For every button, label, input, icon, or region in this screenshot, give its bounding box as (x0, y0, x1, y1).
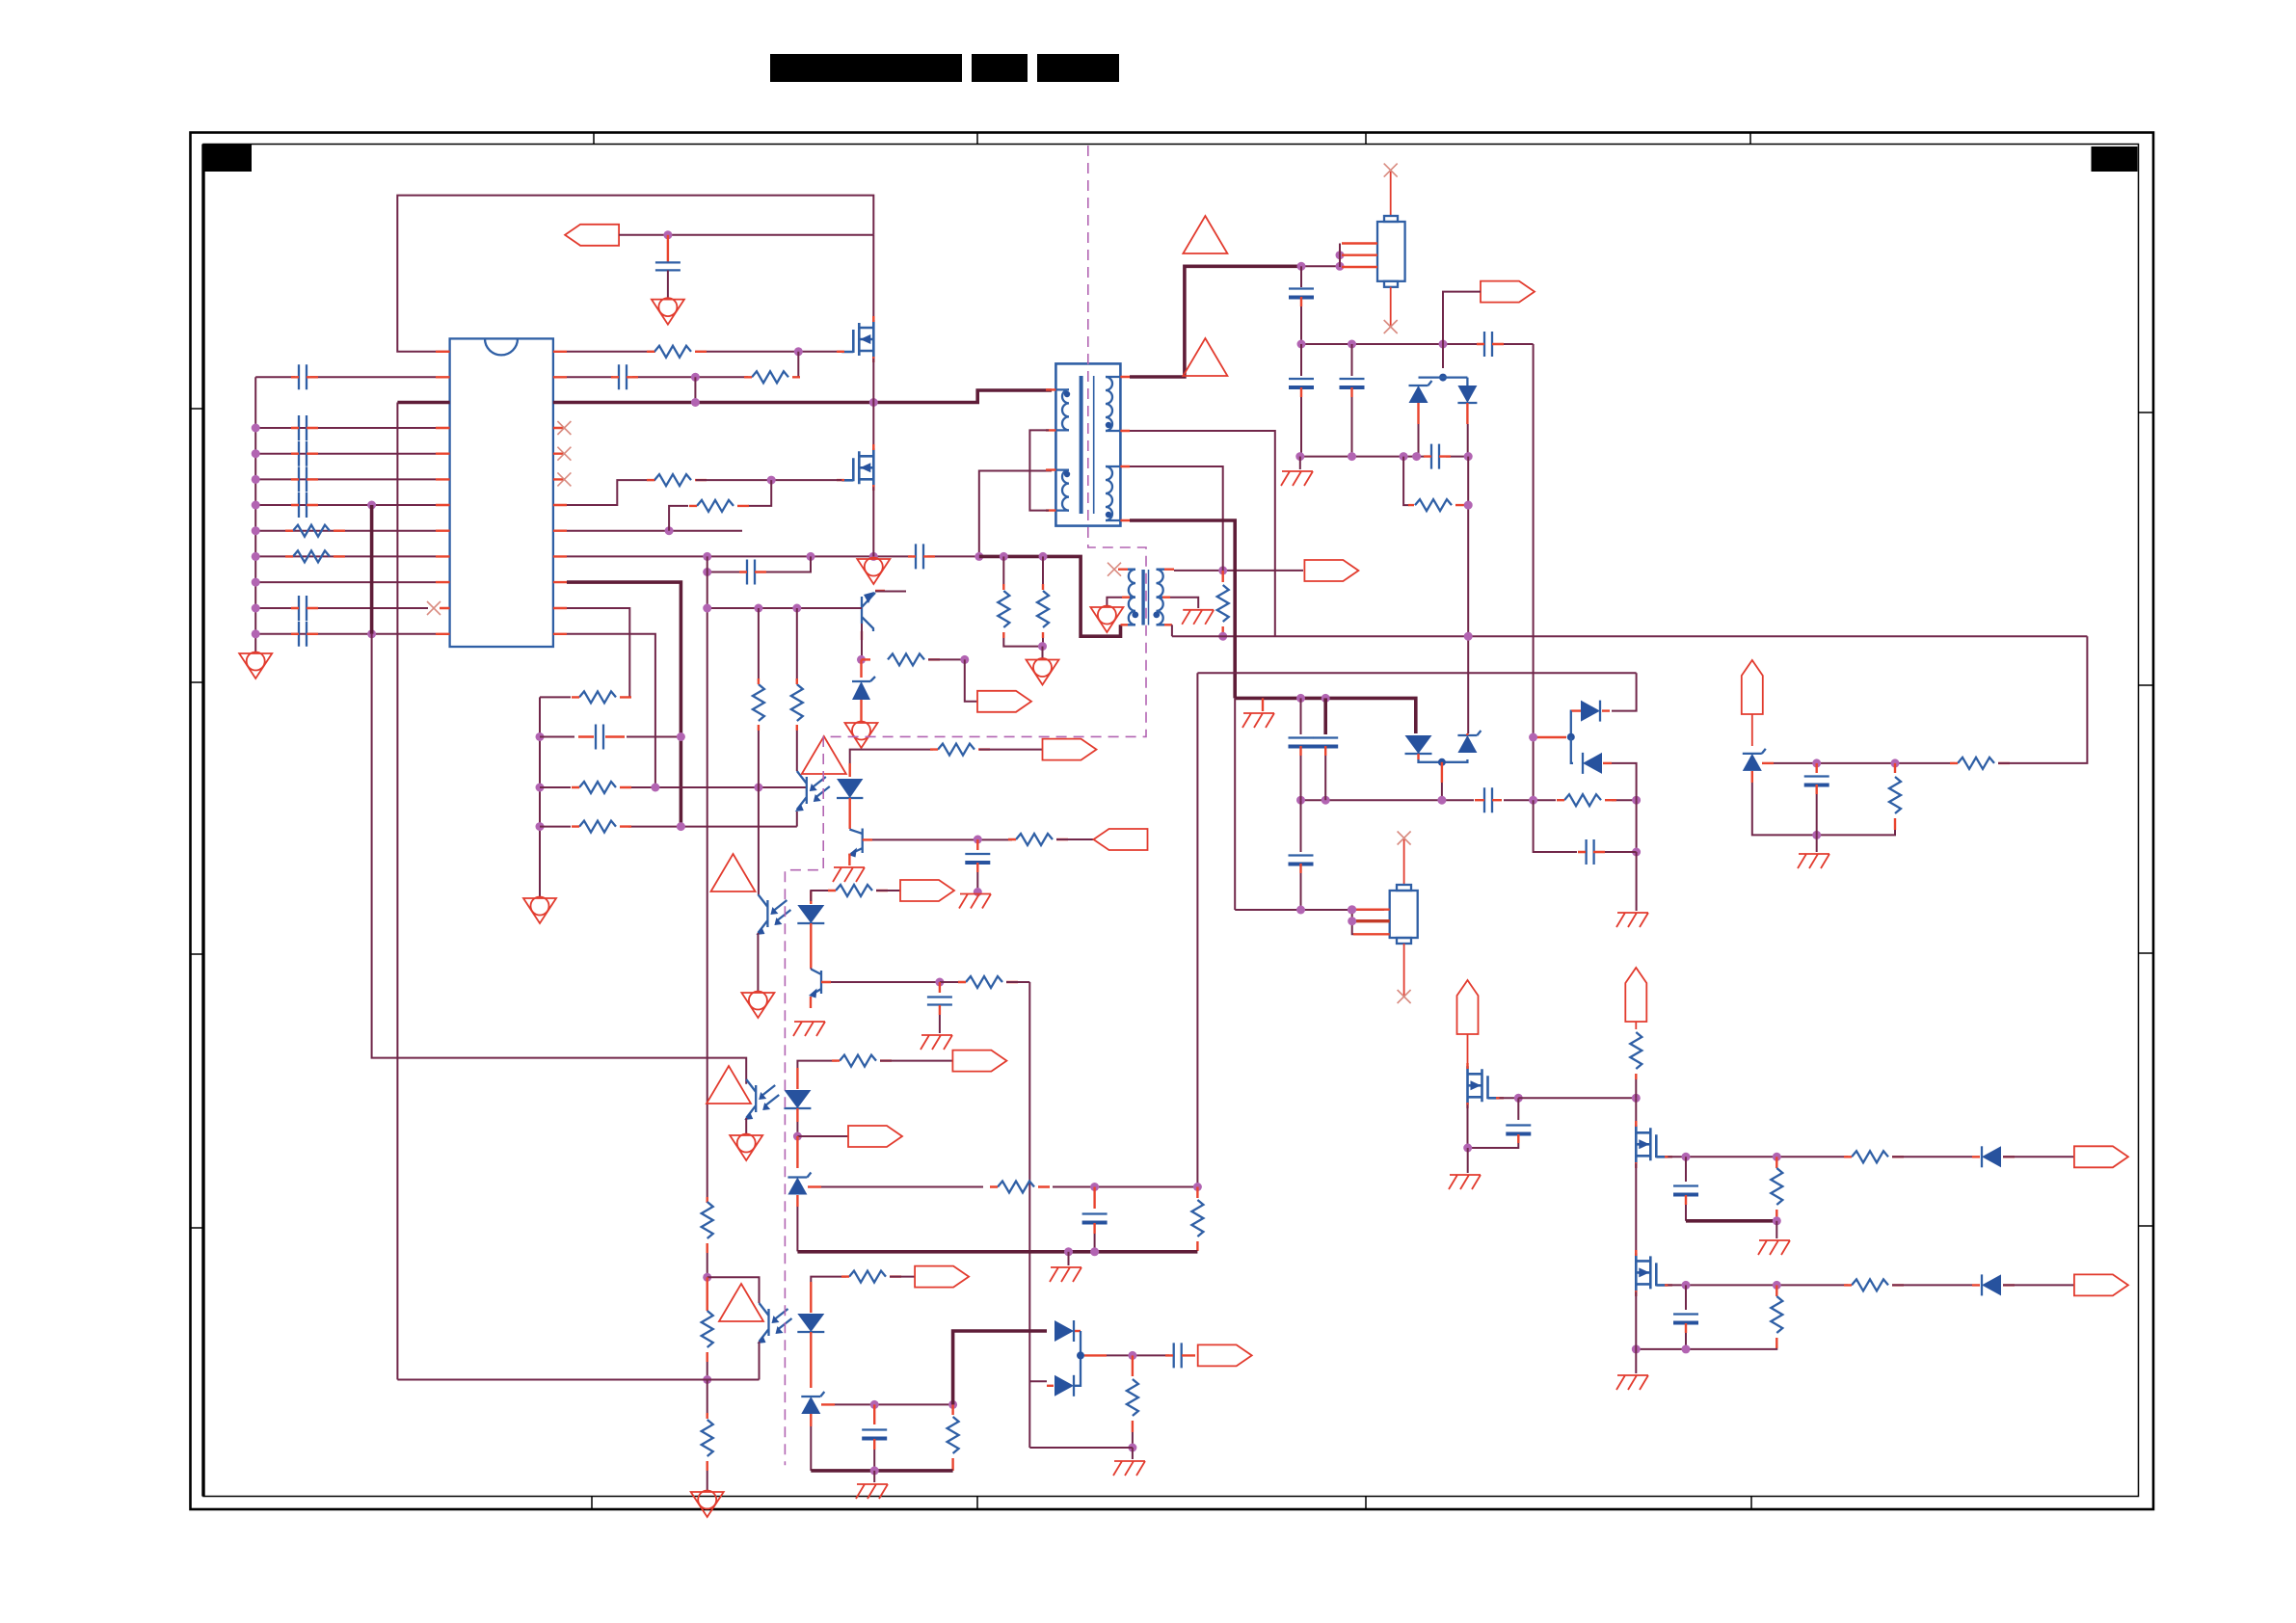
resistor R3 (Q1 gate) (647, 346, 707, 358)
MOSFET Q8 (1636, 1250, 1672, 1296)
regulator U3 (3-terminal) (1348, 832, 1418, 1004)
capacitor C14 (series y357) (1477, 332, 1504, 357)
resistor R29 (948, 1404, 959, 1471)
capacitor C1 (decoupling on arrow net) (655, 235, 681, 300)
wire T1 secondary pin4 thick (1130, 520, 1235, 698)
wire y357 rail (1301, 343, 1534, 345)
wire pin10 row (255, 581, 436, 583)
node R16 bottom on y658 (1218, 632, 1227, 641)
wire Q7 row y1200 (1668, 1156, 1848, 1157)
resistor R36 (x787 chain) (753, 608, 764, 787)
wire y1400 row (1636, 1347, 1776, 1350)
node x733 y1325 (703, 1273, 711, 1282)
node y792 x1966 (1891, 758, 1900, 767)
border tick left 3 (191, 953, 204, 955)
connector arrow supply A (up) (1457, 980, 1479, 1034)
wire arrow A to M1 (1467, 1034, 1469, 1066)
connector arrow feedback (848, 1126, 902, 1147)
capacitor C19 (x1349 upper) (1289, 698, 1314, 800)
resistor R20 (ref divider) (1889, 763, 1901, 830)
resistor R27 (x733 chain lower) (702, 1277, 713, 1379)
diode D12 (OR bottom) (1029, 1355, 1081, 1396)
node x1590 y765 (1529, 733, 1537, 742)
node gbus y817 (536, 784, 545, 792)
wire U5 LED cathode to sense node (796, 1122, 798, 1136)
connector arrow opto drive 1 (900, 880, 954, 901)
wire U2 emitter down to y857 (796, 811, 798, 827)
capacitor C22 (y884) (1534, 800, 1637, 865)
wire pin6 row (255, 478, 436, 480)
wire U6 LED anode feed (811, 1277, 846, 1282)
capacitor C23 (ref filter) (1804, 763, 1829, 836)
chassis ground GC3 (rect rail) (1242, 698, 1274, 728)
resistor R18 (series y830) (1557, 794, 1616, 806)
node y1400 x1749 (1682, 1344, 1691, 1353)
chassis ground GC6 (1798, 854, 1829, 868)
border tick right 2 (2139, 684, 2154, 686)
capacitor C26 (862, 1404, 887, 1471)
wire T1 secondary pin1 thick to snubber rail (1130, 266, 1304, 377)
node rail x1015 (974, 552, 983, 561)
node snubber x1390 (1336, 262, 1345, 271)
wire R12 to U2 collector (796, 731, 798, 771)
wire y1502 row (1029, 1447, 1133, 1449)
node y1231 x1242 (1193, 1183, 1202, 1191)
wire U2 LED anode feed (850, 750, 933, 763)
capacitor C30 (Q8 gate) (1673, 1285, 1698, 1349)
wire x1242 vertical (1196, 673, 1198, 1186)
wire pin3 feedback branch down to bottom rail (397, 401, 449, 405)
opto-coupler U4 phototransistor (756, 894, 790, 935)
wire y830 rail (1301, 799, 1637, 801)
border tick right 4 (2139, 1225, 2154, 1227)
connector arrow opto drive 2 (952, 1051, 1006, 1072)
node y1457 x988 (948, 1400, 957, 1409)
ground G9 (U5 emitter) (730, 1134, 762, 1161)
capacitor C20 (x1375 upper) (1313, 698, 1338, 800)
wire sense branch from pin7 down to pin12 and to opto section (370, 505, 374, 634)
wire x1697 to chassis (1636, 800, 1638, 852)
node fuse pins (1336, 251, 1345, 259)
node y1179 (793, 1132, 802, 1141)
wire Q4 base row (863, 838, 872, 840)
wire x1697 down (1636, 852, 1638, 911)
node snubber on x733 (703, 568, 711, 576)
wire ref ground stub (1816, 835, 1818, 852)
connector arrow error (left pointing) (1094, 829, 1148, 850)
wire x733 vertical (pin9 sense chain) (707, 556, 708, 1197)
wire pin9 row (source return) (567, 471, 1052, 557)
wire Vref down to zener (1751, 714, 1753, 746)
node y817 x680 (651, 784, 659, 792)
wire Q2 drain from bus node (872, 403, 874, 449)
wire zener D10 row y1457 (835, 1403, 953, 1405)
wire y764 row with capacitor C12 (540, 725, 681, 750)
wire T2 secondary top to arrow node (1174, 570, 1303, 572)
border tick right 3 (2139, 952, 2154, 954)
wire U2 collector feed from base row (796, 608, 798, 680)
capacitor C11 (snubber) (739, 560, 766, 585)
node pin8 (665, 526, 674, 535)
wire y1267 ground stub (1775, 1221, 1777, 1238)
transformer T2 standby (1118, 570, 1174, 625)
node y1231 x1135 (1090, 1183, 1099, 1191)
wire U4 emitter down to ground (757, 933, 759, 991)
opto-coupler U4 LED (797, 891, 824, 937)
wire pin7 row (255, 504, 436, 506)
chassis ground GC5 (1616, 913, 1648, 927)
node y1333 x1749 (1682, 1281, 1691, 1290)
capacitor C8 (series pin12) (291, 622, 318, 647)
diode D7 (OR down) (1567, 733, 1637, 801)
wire U6 LED cathode to zener (810, 1347, 812, 1388)
MOSFET Q1 (837, 316, 873, 362)
capacitor C3 (series pin4) (291, 415, 318, 440)
transistor Q4 (error amp) (848, 829, 863, 858)
ground G3 (Q2 source) (857, 558, 890, 585)
resistor R16 (standby bleeder) (1217, 571, 1229, 636)
x mark unconnected right pin 6 (557, 472, 571, 486)
node y1019 x975 (935, 978, 944, 987)
wire T1 secondary pin3 (1130, 466, 1223, 571)
diode D2 (clamp up) (1409, 344, 1468, 457)
wire snubber cap branch (707, 556, 811, 572)
capacitor C29 (Q7 gate) (1673, 1157, 1698, 1221)
opto-coupler U6 phototransistor (758, 1303, 792, 1344)
ground G5 (zener) (845, 722, 878, 749)
wire pin11 row from bus to capacitor (255, 607, 295, 609)
node x733 y1431 (703, 1375, 711, 1384)
node y944 x1349 (1296, 906, 1305, 915)
node y1200 x1749 (1682, 1153, 1691, 1161)
node bus pin11 (252, 604, 260, 613)
connector arrow output A (2074, 1146, 2128, 1167)
wire U5 emitter to ground (745, 1118, 747, 1133)
zone label box top-left (204, 145, 252, 172)
wire thick riser to diode OR block (953, 1331, 1047, 1404)
connector arrow supply B (up) (1625, 968, 1646, 1022)
wire OR output row (1084, 1354, 1169, 1356)
node y1267 x1843 (1773, 1216, 1781, 1225)
wire snubber rail thin to fuse (1304, 265, 1340, 267)
node y792 x1884 (1812, 758, 1821, 767)
resistor R12 (U2 collector) (791, 678, 803, 731)
border frame outer (191, 133, 2154, 1510)
node main column y1139 (1632, 1094, 1641, 1103)
node y830 x1697 (1632, 796, 1641, 805)
diode D6 (OR up) (1571, 673, 1637, 736)
capacitor C16 (x1402 lower) (1340, 344, 1365, 457)
node bus pin10 (252, 578, 260, 587)
border tick bottom 2 (976, 1497, 978, 1510)
resistor R32 (output series) (1844, 1151, 1972, 1162)
transistor Q3 (PNP) (849, 591, 906, 659)
wire pin10 row thick to divider (567, 582, 681, 663)
capacitor C10 (series in source return) (908, 544, 935, 569)
node y1457 x907 (870, 1400, 879, 1409)
wire branch down to opto3 collector feed (372, 634, 747, 1084)
wire Q1 source to bus node (872, 359, 874, 403)
resistor R1 (series pin8) (285, 525, 345, 537)
wire gate net to main column (1518, 1097, 1636, 1099)
wire bus to pin2 with series capacitor C2 (255, 364, 436, 389)
zener D9 (clamp) (788, 1136, 811, 1251)
node R8 right (960, 655, 969, 664)
wire x1523 vertical (1467, 457, 1469, 733)
connector arrow VCC-IN (left pointing) (565, 225, 873, 246)
wire gate drive row pin1 (567, 351, 841, 353)
node OR output (blue) (1077, 1351, 1084, 1359)
wire pin7 row up to gate resistor (567, 480, 655, 505)
wire zener anode down and along y866 (1752, 783, 1895, 835)
node pin9 x733 (703, 552, 711, 561)
resistor R6 (Q2 gate parallel) (689, 500, 749, 512)
connector arrow aux out (1443, 281, 1535, 344)
IC U1 left pin stubs (436, 352, 450, 634)
node base row x733 (703, 604, 711, 613)
resistor R5 (Q2 gate) (647, 474, 707, 486)
node y1333 x1843 (1773, 1281, 1781, 1290)
node standby output (1218, 566, 1227, 574)
wire U4 LED anode to resistor and arrow (811, 891, 833, 901)
connector arrow run (977, 691, 1031, 712)
node x1697 y884 (1632, 848, 1641, 857)
wire Q1 drain vertical (872, 235, 874, 322)
wire thick bottom y1526 (811, 1469, 952, 1473)
border tick bottom 3 (1365, 1497, 1367, 1510)
wire loop from IC pin1 up and across to Q1 drain (397, 196, 873, 352)
wire y473 rail (1300, 456, 1468, 458)
resistor R2 (series pin9) (285, 550, 345, 562)
chassis ground GC14 (1616, 1375, 1648, 1390)
node y473 x1469 (1412, 452, 1421, 461)
border tick right 1 (2139, 412, 2154, 413)
resistor R34 (output series 2) (1844, 1279, 1972, 1290)
zone label box top-right (2092, 146, 2138, 172)
resistor R21 (U4 LED) (828, 885, 900, 896)
wire T1 secondary pin2 to loop (1130, 431, 1275, 636)
x mark T2 unconnected pin (1108, 563, 1121, 576)
fuse F1 (top link) (1340, 164, 1405, 333)
resistor R33 (Q7 gate bleed) (1771, 1157, 1782, 1220)
border tick top 4 (1749, 133, 1751, 145)
resistor R35 (Q8 gate bleed) (1771, 1285, 1782, 1348)
wire U4 collector from y817 node (758, 787, 760, 894)
resistor R14 (rail pull vertical) (998, 556, 1042, 646)
node pin7 branch (367, 501, 376, 510)
wire base row of PNP Q3 (707, 607, 849, 609)
border tick top 2 (976, 133, 978, 145)
wire y698 rail (1197, 672, 1636, 674)
resistor R19 (to return loop) (1950, 636, 2087, 769)
wire bottom rail y1431 (397, 1379, 759, 1381)
connector arrow opto drive 3 (915, 1266, 969, 1288)
resistor R30 (bleed) (1127, 1355, 1138, 1448)
warning triangle W4 (707, 1066, 751, 1104)
warning triangle W6 (719, 1284, 763, 1321)
capacitor C24 (y1019 filter) (927, 982, 952, 1033)
resistor R17 (parallel RC) (1403, 457, 1467, 511)
border frame left inner thick line (201, 145, 204, 1497)
title bar 2 (972, 54, 1028, 82)
wire R5 to Q2 gate (696, 479, 841, 481)
capacitor C7 (series pin11, open end) (291, 596, 428, 621)
wire pin4 row (255, 427, 436, 429)
node C31 ground (974, 888, 982, 896)
node bus pin7 (252, 501, 260, 510)
chassis ground GC10 (856, 1484, 888, 1499)
connector arrow Vref (up) (1742, 660, 1763, 714)
capacitor C15 (x1350 lower) (1289, 344, 1314, 457)
wire down to run connector (965, 659, 977, 701)
chassis ground GC2 (T2 secondary tap) (1170, 598, 1214, 625)
border tick bottom 4 (1750, 1497, 1752, 1510)
node y1299 x1108 (1064, 1247, 1073, 1256)
wire ground stub y1502 (1132, 1448, 1134, 1459)
node bus pin4 (252, 424, 260, 433)
node bus pin12 (252, 629, 260, 638)
node gbus y857 (536, 822, 545, 831)
diode D11 (OR top) (1055, 1320, 1081, 1355)
resistor R8 (collector load) (862, 653, 965, 665)
opto-coupler U5 phototransistor (744, 1079, 779, 1120)
node y357 x1497 (1439, 340, 1448, 349)
left decoupling bus vertical (254, 377, 256, 652)
wire y857 row resistor R9 (540, 821, 797, 833)
node Q4 collector (974, 836, 982, 844)
zener D10 (801, 1392, 835, 1471)
MOSFET Q6 (small p-ch) (1468, 1063, 1505, 1108)
wire D7 node to x1590 (1534, 736, 1566, 738)
wire y817 row resistor R11 (540, 782, 655, 793)
resistor R25 (x1242) (1191, 1187, 1203, 1252)
node x1523 y660 (1464, 632, 1473, 641)
connector arrow output B (2074, 1274, 2128, 1295)
chassis ground GC9 (1050, 1267, 1081, 1282)
capacitor C27 (series) (1165, 1343, 1195, 1368)
node y817 x787 (754, 784, 762, 792)
ground G10 (691, 1491, 724, 1518)
wire y944 row (1235, 909, 1384, 911)
node y866 x1884 (1812, 831, 1821, 839)
node on arrow line (663, 230, 672, 239)
title bar 1 (770, 54, 962, 82)
wire Q4 emitter to chassis ground (848, 854, 850, 865)
capacitor C25 (x1135) (1082, 1187, 1108, 1252)
chassis ground GC13 (1758, 1240, 1790, 1255)
wire to ground G6 (1042, 647, 1044, 659)
resistor R22 (y1019) (940, 976, 1029, 988)
x mark unconnected right pin 4 (557, 421, 571, 435)
wire thick rectifier rail (1235, 698, 1416, 733)
wire x1590 vertical (1533, 344, 1535, 800)
wire R7 ground bus vertical (539, 697, 541, 896)
ground G4 (523, 897, 556, 924)
wire T2 secondary bottom to return (1171, 625, 1173, 636)
node y830 x1349 (1296, 796, 1305, 805)
wire Q5 base row y1019 (831, 981, 936, 983)
wire main bus row3 (thick) to transformer primary (553, 390, 1052, 403)
wire feedback row y817 (655, 786, 807, 788)
wire pin9 row (255, 555, 436, 557)
resistor R4 (pin2 to gate) (744, 371, 800, 383)
chassis ground GC15 (959, 894, 991, 909)
node bus pin5 (252, 449, 260, 458)
capacitor C9 (pin2 series) (611, 364, 638, 389)
node y357 x1402 (1348, 340, 1356, 349)
IC U1 (power supply controller) (450, 338, 553, 647)
wire y1231 rail (821, 1186, 1197, 1188)
node y1406 x1175 (1128, 1351, 1136, 1360)
warning triangle W5 (711, 854, 756, 891)
node y1502 (1128, 1444, 1136, 1452)
wire Q6 source to chassis (1467, 1148, 1469, 1173)
IC U1 right pin stubs (553, 352, 567, 634)
border frame inner (203, 145, 2139, 1497)
zener D1 (852, 659, 875, 721)
capacitor C18 (series y830) (1475, 787, 1502, 812)
wire Q2 source down (872, 487, 874, 556)
node gate Q2 (767, 476, 776, 485)
warning triangle W2 (1183, 216, 1227, 253)
diode D3 (clamp down) (1457, 378, 1477, 457)
resistor R38 (error out) (1008, 834, 1094, 845)
transformer T1 main (1046, 363, 1130, 525)
node y830 x1375 (1322, 796, 1330, 805)
wire U6 emitter down to bottom rail (759, 1342, 761, 1380)
capacitor C13 (bulk, x1350) (1289, 266, 1314, 344)
border tick top 1 (593, 133, 595, 145)
wire pin5 row (255, 453, 436, 455)
wire thick branch continuation (680, 663, 683, 827)
resistor R28 (U6 LED) (841, 1271, 915, 1283)
ground G2 (left bus) (239, 652, 272, 679)
node rect rail x1375 (1322, 694, 1330, 703)
isolation barrier (dash-dot) (785, 146, 1146, 1465)
wire pin2 node down to bus (694, 377, 696, 402)
node bus pin6 (252, 475, 260, 484)
border tick left 4 (191, 1227, 204, 1229)
chassis ground GC4 (1281, 457, 1313, 486)
diode D4 (rect) (1405, 735, 1468, 766)
MOSFET Q7 (1636, 1121, 1672, 1168)
node y473 x1402 (1348, 452, 1356, 461)
node Q3 collector (857, 655, 866, 664)
capacitor C31 (error filter) (965, 839, 990, 892)
zener D8 (TL431 reference) (1743, 749, 1774, 783)
wire main column vertical (1635, 1098, 1637, 1126)
node bus pin9 (252, 552, 260, 561)
chassis ground GC7 (Q5 emitter) (793, 1022, 825, 1036)
node y1400 x1697 (1632, 1344, 1641, 1353)
opto-coupler U2 phototransistor (795, 771, 830, 811)
node pin12 branch (367, 629, 376, 638)
wire pin8 row right (567, 530, 742, 532)
capacitor C5 (series pin6) (291, 466, 318, 492)
wire pin12 row (255, 633, 436, 635)
resistor R13 (LED feed) (930, 744, 990, 756)
wire pin12 row down to feedback row (567, 634, 655, 787)
node y473 x1456 (1400, 452, 1408, 461)
node bus pin8 (252, 526, 260, 535)
resistor R37 (bleeder below rail) (702, 1380, 713, 1492)
wire x1068 vertical down to diode OR (1028, 982, 1030, 1448)
node gbus y764 (536, 732, 545, 741)
node base row x827 (792, 604, 801, 613)
wire main column Q8 source (1635, 1291, 1637, 1373)
warning triangle W1 (802, 736, 846, 774)
node Q6 source (1463, 1144, 1472, 1153)
